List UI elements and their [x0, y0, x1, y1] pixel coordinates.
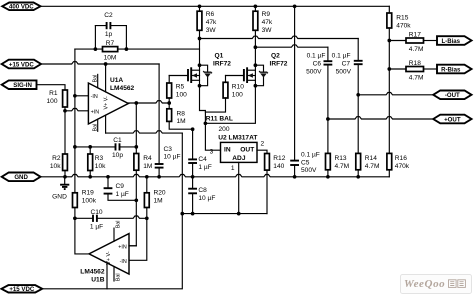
resistor R16 [387, 153, 392, 169]
resistor R6 [199, 6, 201, 11]
svg-text:L-Bias: L-Bias [441, 38, 460, 45]
resistor R17 [406, 38, 424, 43]
svg-text:R9: R9 [262, 11, 271, 18]
svg-text:C10: C10 [90, 209, 102, 216]
svg-text:500V: 500V [336, 68, 352, 75]
wire +IN to U1A [65, 109, 88, 111]
svg-text:1M: 1M [177, 118, 186, 125]
svg-text:500V: 500V [306, 68, 322, 75]
svg-text:1 µF: 1 µF [198, 164, 211, 171]
svg-text:+IN: +IN [118, 244, 127, 250]
wire R17 to L-Bias [424, 40, 438, 42]
wire Q2 gate [226, 75, 244, 77]
resistor R15 [387, 13, 392, 28]
svg-text:10M: 10M [104, 54, 117, 61]
node +OUT tag [433, 115, 471, 124]
svg-text:1 µF: 1 µF [116, 191, 129, 198]
node L-Bias tag [437, 36, 472, 45]
svg-text:3: 3 [210, 149, 214, 156]
pin U1B Bal bottom [113, 267, 115, 282]
svg-text:R1: R1 [49, 90, 58, 97]
svg-text:10k: 10k [95, 163, 106, 170]
wire U1A V- to bus [106, 131, 183, 133]
svg-text:R7: R7 [106, 40, 115, 47]
svg-text:R17: R17 [409, 31, 421, 38]
transistor Q2 [243, 69, 245, 81]
svg-text:U1B: U1B [91, 276, 104, 283]
svg-text:U1A: U1A [110, 77, 123, 84]
svg-text:400 VDC: 400 VDC [9, 4, 34, 11]
svg-text:SIG-IN: SIG-IN [13, 82, 32, 89]
svg-text:-IN: -IN [120, 259, 127, 265]
svg-text:Q2: Q2 [271, 53, 280, 60]
svg-text:R20: R20 [154, 190, 166, 197]
svg-text:100: 100 [176, 92, 187, 99]
transistor Q1 [187, 69, 189, 81]
wire R15 to R18 [389, 68, 406, 70]
op-amp U1A [88, 83, 128, 124]
svg-text:1p: 1p [105, 31, 113, 38]
svg-text:Bal: Bal [92, 124, 98, 132]
svg-text:+OUT: +OUT [444, 116, 461, 123]
wire C2R7 right [125, 26, 127, 49]
svg-text:10 µF: 10 µF [164, 154, 181, 161]
svg-text:C1: C1 [113, 137, 122, 144]
svg-text:0.1 µF: 0.1 µF [301, 152, 320, 159]
resistor R10 [225, 76, 227, 83]
svg-text:Bal: Bal [116, 221, 122, 229]
pin U2 IN 3 [205, 123, 220, 150]
svg-text:10p: 10p [112, 152, 123, 159]
node GND tag [2, 173, 41, 182]
svg-text:R4: R4 [143, 155, 152, 162]
resistor R9 [254, 6, 256, 11]
svg-text:+15 VDC: +15 VDC [9, 286, 34, 293]
wire +15V bottom rail [42, 214, 182, 289]
svg-text:+IN: +IN [91, 110, 100, 116]
pin U2 ADJ 1 [238, 162, 240, 213]
svg-text:1M: 1M [154, 197, 163, 204]
svg-text:C6: C6 [313, 61, 322, 68]
svg-text:3W: 3W [262, 27, 273, 34]
svg-text:R-Bias: R-Bias [441, 66, 461, 73]
svg-text:R16: R16 [395, 155, 407, 162]
capacitor C10 [73, 216, 77, 220]
wire 400V to C5 [294, 6, 296, 160]
pin U2 OUT 2 [257, 150, 267, 153]
svg-text:R11 BAL: R11 BAL [206, 116, 233, 123]
resistor R18 [406, 67, 424, 72]
svg-text:470k: 470k [395, 163, 410, 170]
svg-text:0.1 µF: 0.1 µF [307, 53, 326, 60]
pin U1B Bal top [113, 228, 115, 241]
svg-text:-OUT: -OUT [445, 92, 460, 99]
resistor R7 [95, 48, 126, 50]
wire +OUT [328, 117, 433, 119]
node R-Bias tag [437, 65, 472, 74]
svg-text:C8: C8 [198, 187, 207, 194]
svg-text:47k: 47k [262, 19, 273, 26]
svg-text:C9: C9 [116, 183, 125, 190]
svg-text:GND: GND [52, 193, 67, 200]
svg-text:200: 200 [219, 126, 230, 133]
svg-text:100: 100 [46, 98, 57, 105]
wire Q1 gate [169, 75, 188, 77]
wire U1B +IN [129, 245, 136, 247]
svg-text:IRF72: IRF72 [270, 60, 288, 67]
pin U1A V- [105, 115, 107, 133]
svg-text:1: 1 [231, 165, 235, 172]
capacitor C2 [95, 25, 126, 27]
resistor R8 [167, 109, 172, 122]
wire U1A output [128, 101, 169, 103]
wire +15 down to C3 [158, 64, 160, 164]
pin U1B V+ [106, 263, 108, 289]
svg-text:+15 VDC: +15 VDC [9, 61, 34, 68]
capacitor C1 [75, 146, 116, 148]
capacitor C5 [290, 160, 299, 162]
svg-text:100k: 100k [82, 197, 97, 204]
resistor R2 [63, 154, 68, 171]
svg-text:470k: 470k [396, 22, 411, 29]
svg-text:3W: 3W [206, 27, 217, 34]
svg-text:4.7M: 4.7M [409, 75, 424, 82]
wire 400V rail [41, 5, 390, 7]
wire -OUT [358, 93, 433, 95]
node SIG-IN tag [2, 80, 37, 89]
svg-text:IN: IN [224, 146, 231, 153]
svg-text:GND: GND [14, 174, 28, 181]
node 400VDC supply tag [2, 3, 40, 11]
svg-text:500V: 500V [301, 167, 317, 174]
svg-text:U2 LM317AT: U2 LM317AT [218, 135, 257, 142]
capacitor C6 [324, 60, 333, 62]
wire GND rail [41, 175, 390, 177]
svg-text:10 µF: 10 µF [198, 195, 215, 202]
potentiometer R11 [205, 86, 255, 124]
node -OUT tag [433, 91, 471, 100]
svg-text:4.7M: 4.7M [335, 163, 350, 170]
wire Q1 source [200, 86, 206, 124]
ground symbol [64, 177, 66, 185]
capacitor C4 [192, 129, 194, 159]
pin U1A Bal top [97, 74, 99, 88]
capacitor C8 [192, 177, 194, 189]
wire R15 to R17 [389, 40, 406, 42]
wire R4 to U1B +IN [135, 170, 137, 246]
svg-text:0.1 µF: 0.1 µF [332, 53, 351, 60]
wire Q2 drain to C6 [255, 45, 328, 47]
wire R18 to R-Bias [424, 68, 438, 70]
resistor R20 [146, 177, 148, 193]
node +15VDC bottom tag [1, 285, 42, 292]
svg-text:R5: R5 [176, 84, 185, 91]
pin U1A Bal bottom [97, 119, 99, 131]
wire +15V to U1A V+ [41, 62, 159, 64]
resistor R5 [168, 76, 170, 84]
svg-text:Bal: Bal [92, 75, 98, 83]
svg-text:R12: R12 [273, 155, 285, 162]
svg-text:C4: C4 [198, 156, 207, 163]
wire -IN to U1A [75, 95, 89, 97]
svg-text:LM4562: LM4562 [80, 268, 105, 275]
svg-text:4.7M: 4.7M [365, 163, 380, 170]
wire R8 to C4 [169, 121, 192, 129]
svg-text:WeeQoo: WeeQoo [404, 278, 445, 290]
svg-text:100: 100 [232, 92, 243, 99]
resistor R1 [63, 90, 68, 107]
wire output down [135, 103, 137, 154]
svg-text:R10: R10 [232, 84, 244, 91]
svg-text:Q1: Q1 [215, 53, 224, 60]
svg-text:LM4562: LM4562 [110, 85, 135, 92]
svg-text:R3: R3 [95, 155, 104, 162]
pin U1A V+ [105, 64, 107, 92]
svg-text:R8: R8 [177, 111, 186, 118]
svg-text:R18: R18 [409, 60, 421, 67]
svg-text:IRF72: IRF72 [213, 60, 231, 67]
svg-text:V+ V-: V+ V- [103, 96, 109, 110]
svg-text:R13: R13 [335, 155, 347, 162]
svg-text:47k: 47k [206, 19, 217, 26]
svg-text:R6: R6 [206, 11, 215, 18]
svg-text:1M: 1M [143, 163, 152, 170]
svg-text:C5: C5 [301, 159, 310, 166]
svg-text:OUT: OUT [240, 146, 254, 153]
svg-text:10k: 10k [50, 163, 61, 170]
resistor R3 [89, 147, 91, 154]
svg-text:C2: C2 [104, 12, 113, 19]
op-amp U1B [89, 234, 129, 275]
node +15VDC tag [2, 60, 41, 69]
svg-text:C7: C7 [342, 61, 351, 68]
wire U1B -IN [129, 218, 147, 260]
wire ADJ bus [182, 213, 267, 215]
svg-text:140: 140 [273, 163, 284, 170]
svg-text:R15: R15 [396, 15, 408, 22]
svg-text:R19: R19 [82, 190, 94, 197]
svg-text:1 µF: 1 µF [90, 224, 103, 231]
svg-text:-IN: -IN [91, 94, 98, 100]
wire U1B output [75, 218, 89, 254]
resistor R19 [73, 193, 78, 208]
svg-text:2: 2 [261, 141, 265, 148]
svg-text:4.7M: 4.7M [409, 46, 424, 53]
resistor R4 [134, 154, 139, 171]
resistor R13 [327, 119, 329, 153]
watermark [401, 275, 472, 294]
resistor R12 [265, 154, 270, 171]
svg-text:R14: R14 [365, 155, 377, 162]
op-amp U2 LM317AT box [221, 142, 258, 162]
capacitor C9 [107, 177, 109, 188]
resistor R14 [357, 95, 359, 154]
wire C2R7 left [94, 26, 96, 49]
wire Q1 drain to C7 [200, 36, 359, 38]
svg-text:Bal: Bal [116, 273, 122, 281]
wire SIG-IN to R1 [37, 85, 66, 90]
svg-text:C3: C3 [164, 146, 173, 153]
capacitor C7 [354, 60, 363, 62]
wire R10 to wiper [205, 98, 225, 112]
svg-text:ADJ: ADJ [232, 155, 246, 162]
wire feedback to Q1 drain [126, 48, 199, 50]
capacitor C3 [155, 163, 164, 165]
svg-text:R2: R2 [52, 155, 61, 162]
wire -IN column [74, 49, 76, 193]
